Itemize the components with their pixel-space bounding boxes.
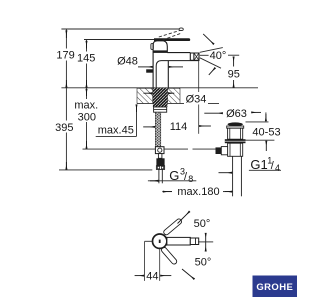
- svg-text:Ø48: Ø48: [117, 55, 138, 67]
- deck top line: [61, 87, 258, 89]
- raised lever tip oval: [179, 28, 183, 31]
- label max.45 with leader: [96, 105, 137, 137]
- svg-text:300: 300: [78, 112, 96, 124]
- svg-text:Ø34: Ø34: [186, 93, 207, 105]
- top view lever: [167, 237, 199, 245]
- drain tailpipe: [233, 156, 242, 196]
- raised lever dashed outline: [159, 30, 182, 40]
- label 50 upper with leader: [178, 211, 211, 229]
- svg-text:GROHE: GROHE: [256, 282, 293, 293]
- deck bottom line: [137, 102, 219, 104]
- threaded shank: [153, 88, 168, 107]
- flange top extension line: [246, 121, 269, 123]
- top view lever rotated up: [163, 218, 183, 236]
- spout tip extension line: [198, 58, 200, 134]
- label Ø34 with pointer arrows: [144, 93, 209, 106]
- top view body circle: [153, 234, 167, 248]
- label 179: [56, 49, 76, 62]
- deck hatch right: [168, 88, 180, 103]
- connector stem: [158, 154, 162, 159]
- svg-text:40-53: 40-53: [252, 127, 280, 139]
- pop-up waste lower body: [228, 143, 243, 156]
- svg-text:max.45: max.45: [98, 125, 134, 137]
- dimension max.180: [162, 185, 232, 198]
- label Ø48 with arrows: [117, 55, 183, 67]
- svg-text:395: 395: [55, 122, 73, 134]
- top reference line: [61, 28, 179, 30]
- dimension line 145/max300 vertical: [86, 40, 88, 150]
- svg-text:50°: 50°: [194, 218, 211, 230]
- faucet spout: [156, 53, 199, 88]
- svg-text:max.180: max.180: [177, 186, 219, 198]
- top view spout stub: [145, 240, 153, 242]
- handle top reference line: [84, 39, 154, 41]
- flange bottom extension line: [246, 139, 275, 141]
- label 50 lower with leader: [182, 256, 211, 279]
- G3/8 threaded pipe: [159, 169, 162, 183]
- 50 degree double arrow: [198, 233, 213, 251]
- svg-text:179: 179: [56, 50, 74, 62]
- GROHE logo: [253, 276, 298, 298]
- label G1 1/4: [219, 156, 282, 174]
- label Ø63 with arrows: [204, 108, 266, 121]
- faucet lever bar: [154, 38, 190, 41]
- mounting nut: [154, 107, 167, 112]
- svg-text:145: 145: [77, 53, 95, 65]
- G3/8 nut: [156, 158, 164, 169]
- svg-text:95: 95: [228, 69, 240, 81]
- faucet head: [153, 41, 168, 88]
- svg-text:44: 44: [146, 270, 158, 282]
- pop-up waste plug: [228, 122, 243, 126]
- pop-up rod line: [83, 148, 216, 150]
- hose end tee fitting: [155, 147, 164, 154]
- svg-text:50°: 50°: [195, 256, 212, 268]
- label 40-53: [252, 127, 280, 139]
- pop-up waste top rim: [227, 126, 244, 128]
- pop-up waste upper body: [228, 128, 243, 139]
- svg-text:max.: max.: [74, 100, 98, 112]
- pop-up rod knob on body: [146, 69, 153, 72]
- pop-up rod side port: [216, 147, 228, 155]
- svg-text:114: 114: [170, 121, 188, 133]
- label 395: [54, 121, 75, 135]
- 44 extension lines: [145, 241, 160, 281]
- pop-up waste flange: [225, 139, 246, 143]
- 40 degree annotation: [200, 34, 227, 75]
- svg-text:Ø63: Ø63: [226, 108, 247, 120]
- dimension 95: [228, 55, 240, 87]
- head side knob: [151, 44, 153, 50]
- svg-text:4: 4: [275, 163, 280, 173]
- flexible hose braided: [155, 112, 161, 146]
- dimension line 395/179 vertical: [65, 29, 67, 170]
- top view lever rotated down: [160, 246, 177, 265]
- svg-text:40°: 40°: [210, 50, 227, 62]
- bottom reference line G3/8 end: [59, 169, 152, 171]
- label 145: [77, 52, 97, 65]
- svg-text:8: 8: [188, 174, 193, 184]
- label max.300: [74, 99, 98, 124]
- 40-53 lower arrow: [265, 141, 267, 151]
- label G3/8: [148, 167, 196, 185]
- svg-text:G1: G1: [250, 157, 267, 172]
- dimension 44: [135, 270, 172, 282]
- deck hatch left: [137, 88, 153, 103]
- dimension 114: [143, 121, 211, 133]
